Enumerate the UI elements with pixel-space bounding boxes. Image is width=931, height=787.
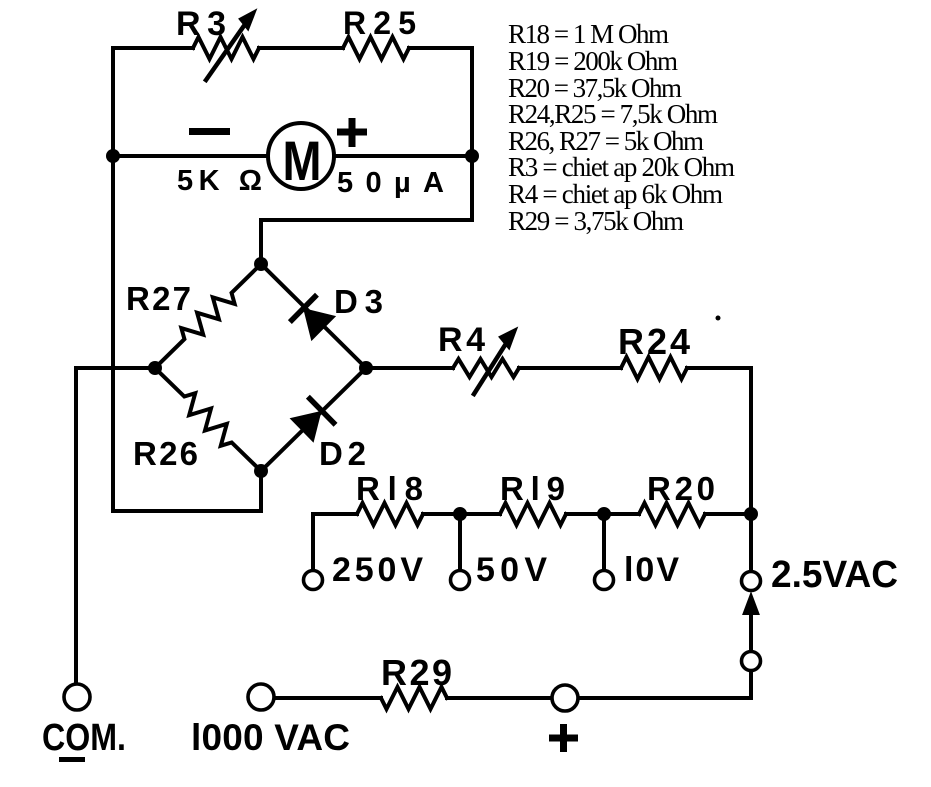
wire right vertical to bridge top	[261, 156, 472, 264]
wire R25 to top-right corner	[409, 46, 472, 50]
wire 50V stub	[458, 514, 462, 571]
wire R20 to rail	[705, 512, 751, 516]
wire right vertical	[470, 48, 474, 156]
label COM underline	[59, 757, 85, 762]
op meter M1 circle	[268, 123, 334, 189]
svg-text:R24,R25 = 7,5k Ohm: R24,R25 = 7,5k Ohm	[508, 99, 718, 129]
svg-text:R3: R3	[176, 5, 226, 43]
svg-text:R26: R26	[133, 435, 198, 472]
wire bridge left node to COM	[76, 368, 155, 684]
resistor R26 (bridge lower-left arm)	[148, 361, 268, 478]
resistor R19	[500, 503, 566, 525]
svg-text:250V: 250V	[332, 551, 423, 589]
wire R18 to node	[423, 512, 500, 516]
resistor R24	[621, 357, 687, 379]
terminal COM	[64, 684, 90, 710]
svg-text:5K Ω: 5K Ω	[177, 165, 262, 197]
svg-text:R4: R4	[438, 321, 485, 359]
diode D2 (bridge lower-right arm)	[261, 368, 366, 471]
meter minus sign	[189, 128, 230, 135]
terminal 50V	[451, 571, 470, 590]
svg-text:R4 = chiet ap 6k Ohm: R4 = chiet ap 6k Ohm	[508, 179, 723, 209]
label plus terminal	[549, 724, 578, 752]
wire bridge bottom to left vertical	[113, 471, 261, 511]
svg-text:l000 VAC: l000 VAC	[191, 717, 350, 758]
svg-text:R3 = chiet ap 20k Ohm: R3 = chiet ap 20k Ohm	[508, 152, 735, 182]
svg-text:50V: 50V	[476, 551, 547, 589]
resistor R4 (variable)	[453, 329, 519, 394]
terminal 2.5VAC	[742, 572, 761, 591]
wire R19 to node	[566, 512, 639, 516]
stray dot	[716, 316, 721, 321]
node divider 10V	[597, 507, 611, 521]
node meter-right junction	[465, 149, 479, 163]
svg-text:COM.: COM.	[42, 717, 126, 759]
terminal plus	[552, 685, 578, 711]
svg-text:R25: R25	[343, 5, 416, 41]
svg-text:2.5VAC: 2.5VAC	[771, 554, 898, 596]
wire 10V stub	[602, 514, 606, 571]
svg-text:R20: R20	[647, 470, 715, 507]
wire bridge right node to R4	[366, 366, 453, 370]
terminal 250V	[304, 571, 323, 590]
meter plus sign	[337, 118, 367, 147]
node bridge right	[359, 361, 373, 375]
resistor R3 (variable)	[193, 11, 259, 80]
node divider 50V	[453, 507, 467, 521]
resistor R18	[357, 503, 423, 525]
svg-text:M: M	[283, 129, 322, 192]
terminal 1000VAC	[248, 684, 274, 710]
wire 250V stub	[313, 514, 357, 571]
node bridge top	[254, 257, 268, 271]
svg-text:l0V: l0V	[624, 551, 679, 589]
resistor R20	[639, 503, 705, 525]
svg-text:50µA: 50µA	[337, 167, 444, 199]
svg-text:D3: D3	[334, 283, 383, 320]
wire top-left lead	[113, 46, 193, 50]
resistor R25	[343, 37, 409, 59]
wire meter row left	[113, 154, 268, 158]
wire plus to R29	[447, 696, 552, 700]
wire R4 to R24	[519, 366, 621, 370]
wire left vertical	[111, 48, 115, 511]
resistor R29	[381, 687, 447, 709]
wire plug arrow to jack	[744, 594, 759, 652]
terminal plug small	[742, 652, 761, 671]
diode D3 (bridge upper-right arm)	[261, 264, 366, 368]
node bridge bottom	[254, 464, 268, 478]
wire meter row right	[334, 154, 472, 158]
wire 2.5VAC stub	[749, 514, 753, 572]
svg-text:R18 = 1 M Ohm: R18 = 1 M Ohm	[508, 19, 669, 49]
svg-text:R19 = 200k Ohm: R19 = 200k Ohm	[508, 46, 678, 76]
svg-text:Rl9: Rl9	[500, 470, 565, 507]
wire R29 to 1000VAC	[274, 696, 381, 700]
wire small plug circle to bottom rail	[578, 670, 751, 698]
node divider 2.5VAC	[744, 507, 758, 521]
node bridge left	[148, 361, 162, 375]
node meter-left junction	[106, 149, 120, 163]
terminal 10V	[595, 571, 614, 590]
svg-text:Rl8: Rl8	[356, 470, 423, 507]
wire R24 to right rail down	[687, 368, 751, 514]
svg-text:D2: D2	[319, 435, 366, 472]
svg-text:R27: R27	[126, 280, 191, 317]
value list text	[508, 19, 735, 236]
resistor R27 (bridge upper-left arm)	[148, 257, 268, 375]
svg-text:R24: R24	[618, 321, 690, 362]
wire R3 to R25	[259, 46, 343, 50]
svg-text:R29 = 3,75k Ohm: R29 = 3,75k Ohm	[508, 206, 684, 236]
svg-text:R29: R29	[381, 652, 452, 693]
